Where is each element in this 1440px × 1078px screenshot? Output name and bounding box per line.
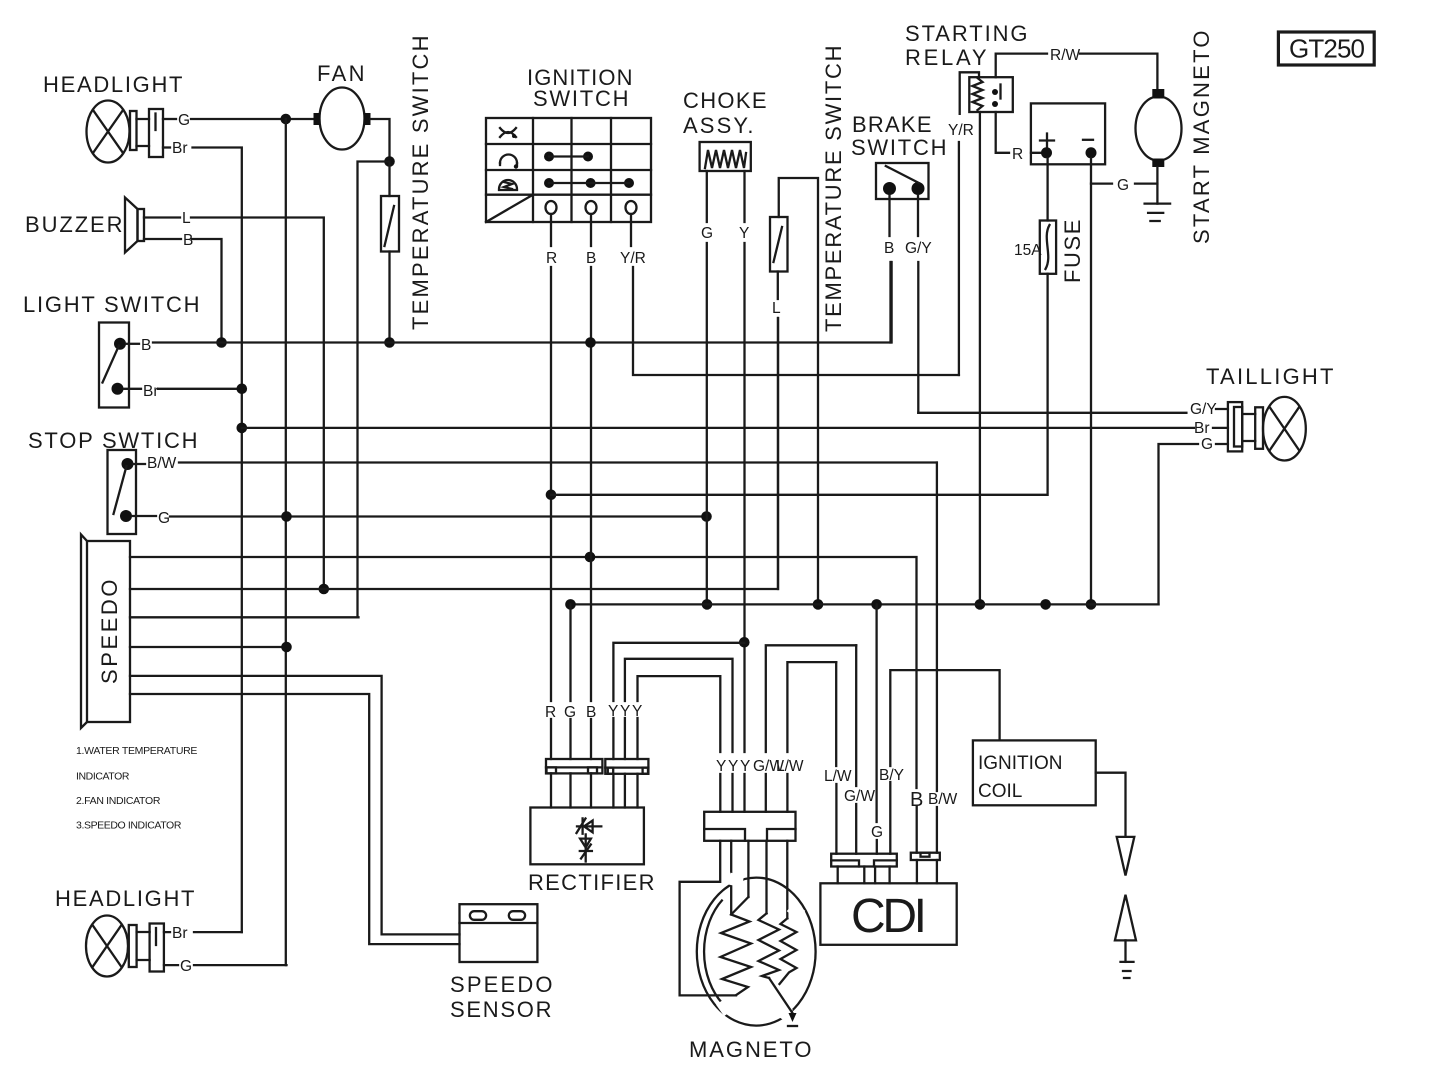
speedo wire 3 to fan line (130, 616, 359, 618)
svg-text:Y: Y (620, 703, 630, 720)
node speedo wire4 junction (281, 642, 292, 653)
svg-text:BUZZER: BUZZER (25, 212, 123, 237)
wire rectifier G up to ground bus (569, 604, 571, 759)
wire temp switch 2 top to ground bus (779, 178, 818, 604)
wire relay coil top to Y/R (960, 72, 979, 114)
node ignition coil feed on ground bus (1040, 599, 1051, 610)
svg-text:RECTIFIER: RECTIFIER (528, 870, 655, 895)
wire R feed to fuse (551, 274, 1048, 495)
svg-text:Y/R: Y/R (948, 122, 974, 139)
ignition switch icon row2 (500, 155, 518, 169)
svg-text:L: L (772, 300, 781, 317)
svg-text:COIL: COIL (978, 781, 1022, 802)
wire magneto L/W to CDI (787, 662, 836, 812)
stop switch box (108, 450, 137, 534)
wire ignition Y/R (631, 214, 959, 375)
wire R/W to start magneto (1080, 54, 1157, 90)
wire choke Y down to magneto connector (743, 171, 745, 812)
node headlight G junction (281, 114, 292, 125)
headlight top connector (130, 109, 163, 157)
wire magneto G/W to CDI (766, 645, 856, 812)
magneto rim slits (716, 873, 814, 1021)
svg-text:15A: 15A (1014, 242, 1042, 259)
wire relay contact top to R/W (996, 54, 1047, 78)
wire battery minus down to ground bus (1090, 158, 1092, 604)
SPEEDO SENSOR box (460, 904, 538, 962)
wire fan right to temperature switch (371, 119, 390, 162)
node relay coil ground (975, 599, 986, 610)
svg-text:Y: Y (740, 758, 750, 775)
starting relay box (969, 77, 1013, 112)
magneto flywheel (697, 878, 816, 1026)
svg-text:B/W: B/W (928, 791, 958, 808)
BRAKE SWITCH label (851, 112, 947, 160)
taillight Br stub (1213, 427, 1228, 429)
magneto coil 1 (721, 897, 752, 995)
node fan temp junction (384, 156, 395, 167)
wire rect Y1 corner (613, 643, 744, 759)
svg-text:G: G (1201, 436, 1213, 453)
svg-text:2.FAN INDICATOR: 2.FAN INDICATOR (76, 795, 161, 807)
speedo wire 4 to headlight G line (130, 646, 287, 648)
svg-text:G: G (701, 225, 713, 242)
svg-text:R: R (545, 704, 556, 721)
wire battery plus to fuse (1046, 158, 1048, 221)
temperature switch 1 symbol (381, 162, 399, 343)
spark plug ground (1121, 962, 1134, 978)
svg-text:L/W: L/W (776, 758, 804, 775)
CDI connector 2 (911, 853, 940, 860)
terminal Br stub headlight top (163, 146, 170, 148)
wire CDI L/W (835, 662, 838, 854)
node choke Y rectifier junction (739, 637, 750, 648)
node choke G on ground bus (702, 599, 713, 610)
rectifier connector RGB (546, 759, 602, 773)
start magneto motor (1136, 89, 1182, 167)
svg-text:HEADLIGHT: HEADLIGHT (43, 72, 183, 97)
svg-text:G/Y: G/Y (1190, 401, 1217, 418)
svg-text:STARTING: STARTING (905, 21, 1028, 46)
node CDI G on ground bus (871, 599, 882, 610)
wire ignition R down to rectifier (550, 214, 552, 759)
svg-text:Y: Y (632, 703, 642, 720)
svg-text:HEADLIGHT: HEADLIGHT (55, 886, 195, 911)
ground symbol start magneto (1145, 204, 1171, 221)
svg-text:1.WATER TEMPERATURE: 1.WATER TEMPERATURE (76, 745, 198, 757)
rectifier connector YYY (605, 759, 648, 774)
temperature switch 2 symbol (770, 217, 788, 272)
headlight (top) label (43, 72, 183, 97)
svg-text:B: B (141, 337, 151, 354)
wire headlight G to fan (191, 118, 314, 120)
wire headlight bottom G (164, 964, 287, 966)
node stop G with headlight G vertical (281, 511, 292, 522)
wire rect Y3 corner (638, 676, 721, 812)
wire ignition B down to rectifier (590, 214, 592, 759)
wire start magneto to ground (1156, 167, 1158, 204)
svg-text:Br: Br (172, 140, 188, 157)
SPEEDO box (81, 535, 130, 729)
svg-text:MAGNETO: MAGNETO (689, 1037, 812, 1062)
wire G/Y line to taillight (918, 409, 1228, 413)
svg-text:R: R (546, 250, 557, 267)
magneto frame wire (680, 841, 736, 996)
magneto ground tail (769, 978, 797, 1026)
node Br junction light switch (237, 384, 248, 395)
CDI box (820, 883, 956, 945)
wire headlight Br to vertical (193, 148, 242, 933)
ignition switch contacts row3 (544, 178, 634, 188)
battery / solenoid box (1031, 103, 1105, 164)
wire CDI G to ground bus (875, 604, 878, 853)
svg-text:Y: Y (739, 225, 749, 242)
note 1 water temperature indicator (76, 745, 198, 783)
ignition switch icon row3 (499, 180, 517, 190)
svg-text:TEMPERATURE SWITCH: TEMPERATURE SWITCH (408, 35, 433, 330)
svg-text:3.SPEEDO INDICATOR: 3.SPEEDO INDICATOR (76, 820, 182, 832)
wire light switch B stub (126, 343, 139, 345)
svg-text:B: B (586, 250, 596, 267)
wire temp switch 2 L down (777, 272, 780, 590)
speedo wire 6 to speedo sensor (130, 694, 460, 944)
terminal G stub headlight top (163, 118, 176, 120)
svg-text:START MAGNETO: START MAGNETO (1189, 30, 1214, 244)
IGNITION COIL box (973, 740, 1096, 805)
svg-text:L: L (182, 210, 191, 227)
wire headlight G down (long vertical) (285, 119, 287, 965)
wire choke G down to ground bus (706, 171, 708, 604)
choke assy box with coil (700, 142, 751, 171)
wire stop switch B/W to CDI B/W (133, 463, 937, 465)
wire ignition coil to spark plug (1096, 773, 1126, 837)
svg-text:ASSY.: ASSY. (683, 113, 754, 138)
CDI connector 1 (831, 854, 897, 867)
wire brake B down to B bus (890, 195, 891, 343)
taillight lamp (1263, 397, 1306, 461)
svg-text:L/W: L/W (824, 768, 852, 785)
wires connectors to CDI box (838, 860, 937, 883)
svg-text:Br: Br (143, 383, 159, 400)
lamp symbol headlight top (87, 101, 130, 163)
node temp switch on B bus (384, 337, 395, 348)
svg-text:G/W: G/W (844, 788, 875, 805)
wire CDI G/W (855, 645, 857, 853)
rectifier box (530, 808, 644, 865)
wire relay coil bottom to ground bus (979, 112, 981, 604)
svg-text:G: G (1117, 177, 1129, 194)
lamp symbol headlight bottom (86, 916, 128, 977)
magneto coil 3 (780, 918, 797, 984)
svg-text:G: G (158, 510, 170, 527)
node speedo wire1 ignition B (585, 552, 596, 563)
ignition switch terminals (546, 201, 637, 214)
headlight bottom connector (129, 924, 164, 972)
GT250 box (1278, 32, 1374, 65)
svg-text:G: G (871, 824, 883, 841)
svg-text:Y/R: Y/R (620, 250, 646, 267)
magneto pins down (731, 841, 787, 919)
svg-text:TEMPERATURE SWITCH: TEMPERATURE SWITCH (821, 45, 846, 332)
wire rect Y2 corner (625, 659, 733, 812)
svg-text:G/Y: G/Y (905, 240, 932, 257)
node ground bus start (rectifier G) (565, 599, 576, 610)
svg-text:SWITCH: SWITCH (851, 135, 947, 160)
svg-text:INDICATOR: INDICATOR (76, 771, 130, 783)
svg-text:BRAKE: BRAKE (852, 112, 932, 137)
ignition switch table (486, 118, 651, 222)
svg-text:Br: Br (1194, 420, 1210, 437)
svg-text:TAILLIGHT: TAILLIGHT (1206, 364, 1334, 389)
brake switch box (876, 163, 929, 199)
wire buzzer B (144, 239, 222, 343)
svg-text:B: B (183, 232, 193, 249)
svg-text:R/W: R/W (1050, 47, 1081, 64)
svg-text:LIGHT SWITCH: LIGHT SWITCH (23, 292, 200, 317)
speedo wire 2 to temp switch L (130, 318, 778, 589)
svg-text:FAN: FAN (317, 61, 365, 86)
magneto connector (704, 812, 795, 841)
svg-text:CDI: CDI (851, 890, 927, 943)
node ignition B on B bus (585, 337, 596, 348)
node buzzer L on speedo wire2 (319, 584, 330, 595)
wire G label to magneto ground line (1135, 182, 1157, 184)
svg-text:G: G (180, 958, 192, 975)
speedo wire 1 to CDI B (130, 557, 917, 788)
IGNITION SWITCH label (527, 65, 633, 111)
wire CDI B/W (936, 463, 938, 853)
svg-text:B: B (884, 240, 894, 257)
fuse symbol (1040, 221, 1056, 274)
svg-text:Y: Y (716, 758, 726, 775)
svg-text:GT250: GT250 (1289, 34, 1365, 64)
magneto coil 2 (759, 913, 780, 978)
wires connector to rectifier box (551, 773, 638, 807)
fan motor (314, 88, 371, 150)
ignition switch icon row1 (500, 128, 516, 138)
wire relay contact bottom to battery R (996, 112, 1009, 153)
wire buzzer L (144, 218, 324, 590)
light switch box (99, 323, 129, 408)
wire light switch Br (124, 388, 242, 390)
rectifier SCR symbol (577, 818, 602, 861)
node battery minus ground (1086, 599, 1097, 610)
svg-text:R: R (1012, 146, 1023, 163)
svg-text:SWITCH: SWITCH (533, 86, 629, 111)
wire minus to G label (1091, 182, 1112, 184)
ground bus horizontal (571, 603, 1159, 605)
taillight connector (1228, 402, 1263, 451)
node Br taillight junction (237, 423, 248, 434)
svg-text:RELAY: RELAY (905, 45, 987, 70)
svg-text:Br: Br (172, 925, 188, 942)
svg-text:Y: Y (608, 703, 618, 720)
svg-text:CHOKE: CHOKE (683, 88, 767, 113)
wire stop switch G (132, 515, 707, 518)
CHOKE ASSY label (683, 88, 767, 138)
taillight G stub and wire to ground bus (1159, 444, 1228, 604)
wire R label to plus (1031, 152, 1047, 154)
wire B bus (light switch to brake switch) (153, 262, 892, 343)
ignition switch contacts row2 (544, 152, 593, 162)
svg-text:G: G (564, 704, 576, 721)
svg-text:Y: Y (728, 758, 738, 775)
node stop G with choke G vertical (701, 511, 712, 522)
speedo wire 5 to speedo sensor (130, 676, 460, 935)
SPEEDO SENSOR label (450, 972, 553, 1022)
svg-text:G: G (178, 112, 190, 129)
wire CDI B (916, 806, 918, 853)
wire junction left jog down to speedo wire3 (358, 162, 390, 618)
node buzzer B on B bus (216, 337, 227, 348)
STARTING RELAY label (905, 21, 1028, 70)
node ignition R battery feed (546, 490, 557, 501)
buzzer symbol (125, 198, 144, 253)
wire Y/R below label (958, 142, 960, 375)
wire Br line to taillight (242, 427, 1194, 429)
wire CDI B/Y to ignition coil (890, 670, 999, 854)
svg-text:IGNITION: IGNITION (978, 753, 1062, 774)
svg-text:B: B (586, 704, 596, 721)
svg-text:B/Y: B/Y (879, 767, 904, 784)
svg-text:FUSE: FUSE (1060, 219, 1085, 283)
wire headlight bottom Br (164, 931, 242, 933)
node temp switch 2 on ground bus (813, 599, 824, 610)
svg-text:B/W: B/W (147, 455, 177, 472)
wire brake G/Y down to taillight G/Y line (917, 195, 920, 413)
spark plug gap (1115, 837, 1136, 962)
